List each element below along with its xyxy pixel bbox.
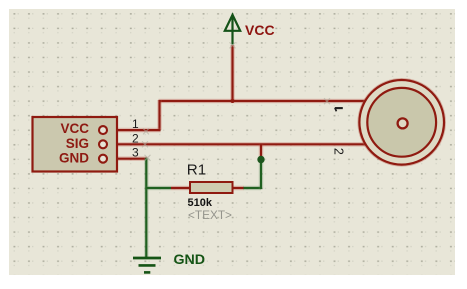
wire: green feed from ground vertical to resistor left lead (146, 186, 171, 191)
wire: SIG net horizontal to buzzer pin 2 (red) (106, 142, 365, 147)
connector pin circle 1 (99, 126, 107, 134)
wire: ground vertical from pin 3 to ground symbol (green) (144, 158, 149, 258)
buzzer centre hole (398, 118, 408, 128)
svg-text:SIG: SIG (66, 136, 89, 151)
wire: top horizontal net to buzzer pin 1 (red) (159, 99, 366, 104)
wire origin x-marks (142, 42, 330, 161)
svg-text:<TEXT>: <TEXT> (188, 208, 232, 222)
buzzer inner disc (367, 88, 436, 157)
wire: connector pin 1 horizontal (red) (106, 128, 161, 133)
svg-text:1: 1 (132, 117, 139, 131)
wire: stub from SIG net down to junction (red) (259, 144, 264, 158)
svg-text:VCC: VCC (60, 121, 89, 136)
svg-text:GND: GND (174, 252, 206, 268)
wire: green from resistor right lead to riser (243, 186, 261, 191)
junction node at VCC rail and top net (231, 99, 235, 103)
resistor R1 leads (red) (171, 186, 244, 191)
buzzer LS1 outer ring (359, 80, 444, 165)
power symbol VCC arrow (green) (225, 15, 240, 45)
connector J1 body (33, 117, 118, 172)
resistor R1 body (190, 182, 233, 193)
svg-text:2: 2 (331, 148, 345, 155)
svg-text:2: 2 (132, 131, 139, 145)
wire: VCC power rail vertical (red) (230, 45, 235, 102)
connector pin circle 3 (99, 155, 107, 163)
wire: connector pin 3 horizontal (red) (106, 156, 147, 161)
connector pin circle 2 (99, 140, 107, 148)
buzzer pin number 1 (rotated) (335, 108, 343, 111)
wire: vertical step down to connector pin 1 (red) (157, 100, 162, 130)
svg-text:510k: 510k (188, 197, 213, 209)
svg-text:3: 3 (132, 146, 139, 160)
svg-text:R1: R1 (187, 161, 206, 178)
wire: green riser up to junction dot (259, 159, 264, 189)
svg-text:VCC: VCC (245, 22, 275, 38)
svg-text:GND: GND (59, 151, 89, 166)
ground symbol (green) (133, 258, 161, 272)
junction dot (green) on SIG stub (257, 156, 264, 163)
